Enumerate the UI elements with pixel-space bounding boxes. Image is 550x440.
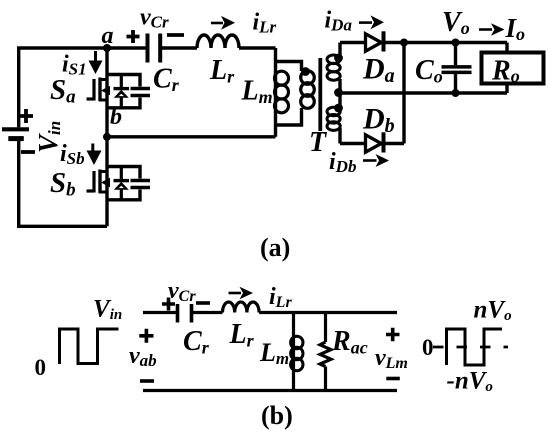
svg-text:a: a xyxy=(102,23,114,49)
svg-text:0: 0 xyxy=(422,335,434,360)
svg-text:(a): (a) xyxy=(260,233,290,262)
svg-text:(b): (b) xyxy=(261,401,293,430)
svg-text:0: 0 xyxy=(35,355,47,380)
svg-text:b: b xyxy=(110,104,122,130)
svg-text:T: T xyxy=(309,127,328,158)
